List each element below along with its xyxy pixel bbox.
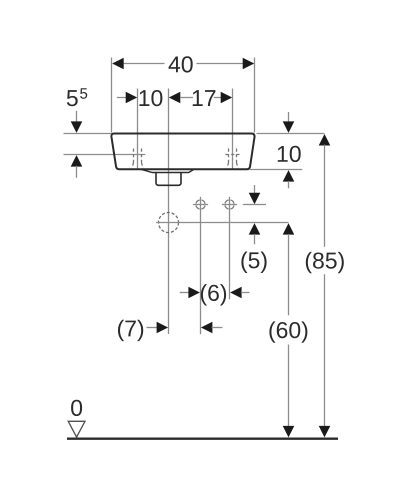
dim (6): right-pointing arrowhead (188, 287, 200, 299)
dim (60): label (269, 321, 307, 342)
dim (6): left tail (180, 292, 190, 294)
dim (7): left tail (147, 327, 158, 329)
dim (6): left-pointing arrowhead (230, 287, 242, 299)
right tap hole (dashed) (226, 149, 240, 169)
dim 10: label (139, 90, 162, 106)
dim (6): right tail (241, 292, 250, 294)
left tap hole (dashed) (132, 149, 143, 169)
dim (85): up arrowhead at basin top level (319, 134, 331, 146)
fixing hole cross right: vertical line down to (6) row (229, 197, 231, 299)
dim (60): upper line segment (288, 234, 290, 315)
dim (85): label (306, 252, 344, 273)
dim 10 right: up arrow tail (288, 181, 290, 188)
drain flange under basin (141, 169, 194, 172)
floor level: open triangle symbol (68, 421, 85, 437)
dim 17: left tail (180, 97, 193, 99)
dim (7): label (118, 320, 143, 341)
dim 17: left-pointing arrowhead (169, 92, 181, 104)
dim (85): down arrowhead at floor (319, 426, 331, 438)
dim 5.5: superscript 5 (80, 88, 87, 98)
fixing hole cross left: vertical line down to (7) row (200, 197, 202, 334)
dim 40: right extension line (254, 58, 256, 133)
dim 5.5: up arrowhead (71, 155, 83, 167)
dim 40: left extension line (111, 58, 113, 133)
dim 40: right arrowhead (243, 58, 255, 70)
dim 17: right-pointing arrowhead (221, 92, 233, 104)
dim 5.5: label 5 (67, 90, 78, 106)
washbasin outline (111, 134, 254, 170)
dim 10/17: extension line left tap hole (137, 89, 139, 169)
dim (5): label (241, 252, 266, 273)
dim (60): lower line segment (288, 345, 290, 429)
dim (7): right-pointing arrowhead (157, 322, 169, 334)
floor line (67, 438, 338, 440)
fixing hole cross left: circle (196, 200, 205, 209)
dim 40: label (169, 56, 193, 72)
dim 10/17: center extension line (continues to (7) row) (168, 89, 170, 335)
floor level: label 0 (71, 400, 82, 416)
fixing hole cross left: horizontal arm (193, 204, 208, 206)
dim (5): down arrowhead (249, 193, 261, 205)
dim 10 right: label (278, 146, 301, 162)
dim 10/17: extension line right tap hole (232, 89, 234, 169)
dim 17: right tail (214, 97, 222, 99)
dim 10: outside arrow tail (117, 97, 127, 99)
dim (85): lower line segment (324, 274, 326, 428)
dim 10 right: down arrowhead (283, 121, 295, 132)
dim (7): right tail (212, 327, 223, 329)
dim 40: line right segment (197, 63, 254, 65)
dim (7): left-pointing arrowhead (201, 322, 213, 334)
dim 5.5: top reference line (basin top level) (64, 133, 112, 135)
dim (5): up arrowhead (249, 223, 261, 235)
dim (60): down arrowhead at floor (283, 426, 295, 438)
dim 10 right: up arrowhead (283, 170, 295, 182)
dim 10 right: down arrow tail (288, 112, 290, 123)
dim (85): upper line segment (324, 145, 326, 247)
dim 10: right-pointing arrowhead (126, 92, 138, 104)
dim 5.5: up arrow tail (76, 166, 78, 178)
fixing hole cross right: circle (225, 200, 234, 209)
dim (5): up arrow tail (254, 234, 256, 244)
dim 40: line left segment (113, 63, 165, 65)
drain pipe dashed circle (159, 213, 179, 233)
drain pipe axis horizontal line (156, 222, 288, 224)
dim 10 right: bottom reference line (250, 169, 302, 171)
fixing hole cross right: horizontal arm (222, 204, 237, 206)
short reference line under (5) down arrow (243, 204, 266, 206)
dim 17: label (193, 90, 216, 106)
dim 5.5: down arrowhead (71, 121, 83, 132)
dim (5): down arrow tail (254, 185, 256, 194)
dim 5.5: down arrow tail (76, 111, 78, 123)
dim 10 right: top reference line (257, 133, 325, 135)
dim (6): label (201, 284, 226, 305)
drain tailpiece rectangle (156, 173, 181, 186)
dim 5.5: tap hole axis line (64, 154, 146, 156)
dim 40: left arrowhead (112, 58, 124, 70)
dim (60): up arrowhead on pipe axis (283, 223, 295, 235)
